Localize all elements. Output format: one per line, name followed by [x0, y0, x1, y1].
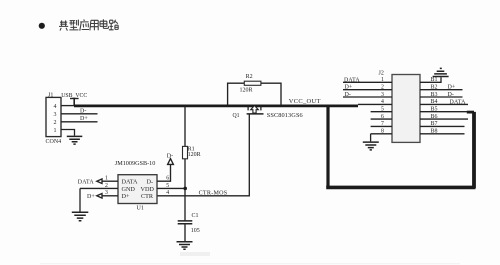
svg-text:D-: D-: [448, 92, 454, 98]
svg-text:JM1009GSB-10: JM1009GSB-10: [115, 160, 156, 167]
svg-text:D-: D-: [147, 178, 154, 185]
thick loop wire VCC_OUT to J2: [326, 106, 475, 188]
J2 pin1 wire, net DATA: [343, 77, 392, 83]
svg-text:8: 8: [381, 129, 384, 135]
svg-text:Q1: Q1: [233, 113, 240, 119]
J2 pin B8 wire: [420, 129, 465, 135]
J2 pin6 wire: [371, 114, 392, 120]
svg-text:VCC_OUT: VCC_OUT: [289, 98, 321, 105]
J2 pin B3 wire, net D-: [420, 92, 463, 98]
ground below C1: [177, 242, 193, 250]
wire Q1 gate to CTR (net CTR-MOS): [157, 114, 249, 196]
svg-text:U1: U1: [137, 206, 144, 212]
J2 pin3 wire, net D-: [343, 92, 392, 98]
svg-text:B7: B7: [431, 121, 438, 127]
svg-text:105: 105: [191, 228, 200, 234]
transistor Q1 (P-MOSFET on VCC bus): [233, 106, 303, 120]
svg-text:B5: B5: [431, 107, 438, 113]
wire J1 pin2 net D+: [61, 116, 98, 122]
svg-text:2: 2: [54, 120, 57, 126]
connector J2 box: [379, 71, 421, 143]
VCC bus thick wire: [74, 105, 358, 108]
svg-text:DATA: DATA: [78, 180, 95, 186]
section title 典型应用电路: [59, 19, 118, 30]
svg-text:J2: J2: [379, 71, 384, 77]
J2 pin4 wire from VCC bus: [358, 99, 392, 105]
J2 pin B2 wire, net D+: [420, 85, 463, 91]
junction dot VDD/R1: [183, 187, 187, 191]
svg-text:120R: 120R: [240, 88, 253, 94]
svg-text:CON4: CON4: [46, 139, 62, 145]
svg-text:D+: D+: [80, 116, 88, 122]
IC U1 JM1009GSB-10: [115, 160, 157, 211]
ground above B1 (inverted): [433, 68, 449, 76]
svg-text:B4: B4: [431, 99, 438, 105]
svg-text:CTR: CTR: [141, 193, 154, 200]
svg-text:B3: B3: [431, 92, 438, 98]
svg-text:2: 2: [105, 183, 108, 189]
svg-text:DATA: DATA: [122, 178, 139, 185]
svg-text:4: 4: [54, 104, 57, 110]
svg-text:D+: D+: [448, 85, 456, 91]
resistor R2 with branch wires: [228, 74, 281, 105]
svg-text:2: 2: [381, 85, 384, 91]
U1 pin 2 wire to ground: [80, 183, 118, 212]
J2 pin B6 wire: [420, 114, 468, 120]
svg-text:6: 6: [381, 114, 384, 120]
svg-text:D+: D+: [122, 193, 130, 200]
svg-text:DATA: DATA: [344, 77, 360, 83]
svg-text:D-: D-: [80, 108, 86, 114]
J2 pin B7 wire: [420, 121, 465, 127]
svg-text:7: 7: [381, 121, 384, 127]
svg-text:CTR-MOS: CTR-MOS: [199, 190, 228, 196]
svg-text:3: 3: [381, 92, 384, 98]
svg-text:5: 5: [166, 183, 169, 189]
svg-text:D-: D-: [345, 92, 351, 98]
capacitor C1: [178, 213, 200, 241]
wire J1 pin1 to ground: [61, 130, 75, 136]
svg-text:B6: B6: [431, 114, 438, 120]
svg-text:SSC8013GS6: SSC8013GS6: [267, 112, 303, 119]
svg-text:VDD: VDD: [141, 186, 155, 193]
net label USB_VCC: [61, 93, 87, 106]
ground below U1: [72, 212, 89, 221]
svg-text:B1: B1: [431, 77, 438, 83]
U1 pin 6 wire and D- up arrow: [157, 153, 173, 181]
J2 pin B1 wire to top ground: [420, 77, 441, 83]
J2 pin B4 wire, net DATA: [420, 99, 468, 105]
J2 pin7 wire: [371, 121, 392, 127]
wire J1 pin3 net D-: [61, 108, 98, 114]
svg-text:1: 1: [105, 176, 108, 182]
J2 pin2 wire, net D+: [343, 85, 392, 91]
J2 pin B5 wire to thick loop: [420, 107, 468, 113]
wire J1 pin4 to USB_VCC node: [61, 105, 74, 107]
ground below J1: [67, 136, 83, 144]
svg-text:D-: D-: [167, 153, 173, 159]
ground below J2 pin8: [363, 142, 379, 150]
svg-text:J1: J1: [48, 93, 53, 99]
svg-text:DATA: DATA: [450, 99, 467, 105]
svg-text:R2: R2: [246, 74, 253, 80]
J2 pin5 wire: [371, 107, 392, 113]
svg-text:C1: C1: [192, 213, 199, 219]
resistor R1: [183, 107, 201, 221]
svg-text:4: 4: [166, 190, 169, 196]
svg-text:D+: D+: [345, 85, 353, 91]
scan artifact bottom mark: [180, 252, 210, 256]
svg-text:B8: B8: [431, 129, 438, 135]
U1 pin 5 wire VDD to R1 node: [157, 183, 185, 189]
svg-text:1: 1: [54, 128, 57, 134]
svg-text:D+: D+: [87, 194, 95, 200]
svg-text:3: 3: [54, 112, 57, 118]
svg-text:B2: B2: [431, 85, 438, 91]
section title bullet: [39, 23, 45, 29]
U1 pin 1 wire and DATA arrow: [78, 176, 118, 186]
svg-text:120R: 120R: [188, 152, 201, 158]
svg-text:5: 5: [381, 107, 384, 113]
svg-text:3: 3: [105, 190, 108, 196]
svg-text:6: 6: [166, 176, 169, 182]
J2 pin8 wire to ground: [371, 129, 392, 142]
svg-text:4: 4: [381, 99, 384, 105]
U1 pin 3 wire and D+ arrow: [87, 190, 118, 200]
svg-text:GND: GND: [122, 186, 136, 193]
connector J1 box: [46, 93, 62, 145]
svg-text:1: 1: [381, 77, 384, 83]
